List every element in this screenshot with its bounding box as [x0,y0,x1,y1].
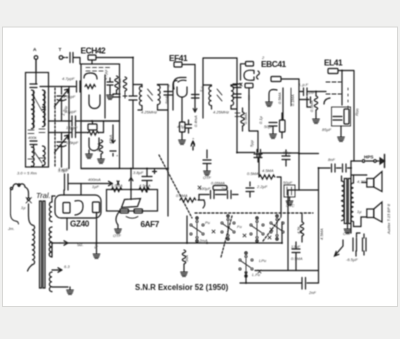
svg-text:4.5MA: 4.5MA [319,228,324,240]
svg-text:0.1µ: 0.1µ [258,115,263,124]
svg-text:50pF: 50pF [264,124,274,129]
svg-text:OTC: OTC [286,203,295,208]
svg-text:1µ: 1µ [21,205,26,210]
svg-text:4.5MA: 4.5MA [262,168,274,173]
svg-text:EL41: EL41 [324,58,343,68]
svg-text:43µpF: 43µpF [65,109,77,114]
svg-text:400mA: 400mA [88,177,101,182]
svg-text:1.5kpF: 1.5kpF [63,94,76,99]
svg-text:A: A [33,47,37,53]
svg-text:ECH42: ECH42 [81,46,107,56]
svg-text:T: T [59,47,62,53]
svg-text:5µµ: 5µµ [249,139,254,147]
svg-text:50µF: 50µF [283,180,293,185]
svg-text:1nF: 1nF [308,90,315,95]
svg-text:Tral.: Tral. [36,191,51,200]
svg-text:1µ: 1µ [357,209,362,214]
svg-text:L.Fu: L.Fu [252,272,261,277]
svg-text:400k: 400k [28,135,38,140]
svg-text:47kA: 47kA [117,79,122,88]
svg-text:0.5MA: 0.5MA [243,112,248,124]
svg-text:3.0 = 5 Rm: 3.0 = 5 Rm [17,171,37,176]
svg-text:EBC41: EBC41 [261,59,287,69]
svg-text:0.5MA: 0.5MA [277,92,282,104]
svg-text:6mA: 6mA [164,95,169,104]
svg-text:6.3: 6.3 [64,264,70,269]
svg-text:85µF: 85µF [322,127,332,132]
svg-text:3.8µF: 3.8µF [133,170,144,175]
svg-text:130µF: 130µF [199,186,211,191]
svg-text:Jm.: Jm. [7,226,14,231]
svg-text:4,7Ω: 4,7Ω [357,179,366,184]
svg-text:47kA: 47kA [108,135,113,144]
svg-text:Fu: Fu [237,224,242,229]
svg-text:6AF7: 6AF7 [141,220,160,229]
svg-text:4.5mA: 4.5mA [139,183,151,188]
svg-text:HPS: HPS [364,155,373,160]
svg-text:0.5MA: 0.5MA [291,256,303,261]
svg-text:3.5µF: 3.5µF [58,168,69,173]
svg-text:4.7µµ: 4.7µµ [103,69,108,80]
svg-text:OTF: OTF [203,175,212,180]
svg-text:0.1µ: 0.1µ [283,150,292,155]
svg-text:1µF: 1µF [92,184,100,189]
svg-text:3kA: 3kA [184,255,189,262]
svg-text:0.5MA: 0.5MA [247,171,259,176]
svg-text:2nF: 2nF [308,290,316,295]
svg-text:0.1MA: 0.1MA [290,94,295,106]
svg-text:2.2µF: 2.2µF [256,184,268,189]
svg-text:L.p.F: L.p.F [299,82,309,87]
svg-text:13µF: 13µF [291,244,301,249]
svg-text:0.05MA: 0.05MA [211,181,225,186]
svg-text:GZ40: GZ40 [70,220,90,229]
svg-text:4.25MHz: 4.25MHz [141,110,157,115]
svg-text:4.5k: 4.5k [296,225,301,234]
svg-text:20kA: 20kA [96,143,101,153]
svg-text:OTF: OTF [113,233,122,238]
svg-text:Ron: Ron [354,108,360,117]
svg-text:5u.: 5u. [77,242,83,247]
svg-text:-6.5µF: -6.5µF [346,257,358,262]
svg-text:0.5MA: 0.5MA [309,100,314,112]
svg-text:4.25MHz: 4.25MHz [213,110,229,115]
svg-text:0.5MA: 0.5MA [176,193,188,198]
svg-text:4.5mA: 4.5mA [111,183,123,188]
svg-text:8nF: 8nF [328,157,335,162]
svg-text:2nF: 2nF [220,186,228,191]
svg-text:S.N.R Excelsior 52 (1950): S.N.R Excelsior 52 (1950) [135,283,229,292]
svg-text:Sµ: Sµ [93,243,98,249]
svg-text:OTF: OTF [343,231,352,236]
svg-text:1.5kpF: 1.5kpF [66,140,79,145]
svg-text:Pu: Pu [205,220,211,225]
svg-text:LPu: LPu [259,258,267,263]
svg-text:EF41: EF41 [169,53,188,63]
svg-text:5.2mA: 5.2mA [196,238,208,243]
svg-text:4.7µpF: 4.7µpF [62,76,75,81]
svg-text:0.4mA: 0.4mA [193,115,198,127]
svg-text:4,5µ: 4,5µ [177,124,186,129]
svg-text:Audax T-15 BP 8: Audax T-15 BP 8 [386,203,391,235]
svg-text:13µpF: 13µpF [66,125,78,130]
